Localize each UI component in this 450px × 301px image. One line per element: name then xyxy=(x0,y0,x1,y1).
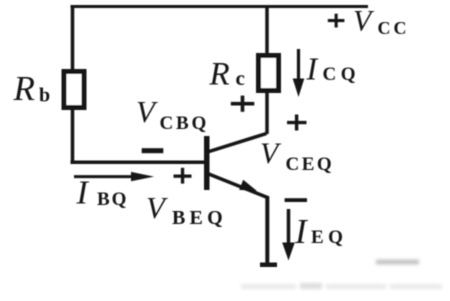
transistor Q1 emitter diagonal xyxy=(208,174,268,198)
svg-text:V: V xyxy=(260,137,282,170)
svg-text:I: I xyxy=(306,51,319,87)
svg-text:b: b xyxy=(39,85,50,107)
wire collector diagonal to transistor xyxy=(208,134,267,153)
watermark band bottom xyxy=(241,283,442,289)
wire emitter vertical xyxy=(265,196,269,263)
plus sign for Vceq xyxy=(287,115,307,131)
resistor Rb xyxy=(64,72,84,108)
svg-text:BEQ: BEQ xyxy=(172,207,227,229)
svg-text:CBQ: CBQ xyxy=(160,113,210,134)
arrow Icq xyxy=(297,49,300,80)
wire collector vertical (top rail to Rc) xyxy=(265,5,269,54)
svg-text:R: R xyxy=(13,69,35,108)
watermark smudge right xyxy=(376,260,419,265)
svg-text:I: I xyxy=(76,175,90,212)
svg-text:R: R xyxy=(209,57,230,93)
minus sign above base wire xyxy=(142,148,164,153)
wire base horizontal xyxy=(71,161,205,165)
wire top rail xyxy=(71,5,369,8)
wire Rb bottom to base node xyxy=(71,109,75,164)
svg-text:CEQ: CEQ xyxy=(286,154,335,175)
svg-text:V: V xyxy=(136,94,158,129)
transistor Q1 base bar xyxy=(204,136,210,190)
svg-text:c: c xyxy=(236,66,245,90)
minus sign at emitter xyxy=(285,198,307,202)
svg-text:V: V xyxy=(353,5,375,38)
label +Vcc plus sign xyxy=(328,14,345,28)
svg-text:EQ: EQ xyxy=(311,227,347,248)
wire Rc bottom to collector bend xyxy=(265,92,269,134)
resistor Rc xyxy=(259,56,279,91)
arrow Ieq xyxy=(287,209,291,244)
svg-text:CQ: CQ xyxy=(323,64,361,85)
wire left vertical (Vcc rail to Rb) xyxy=(71,5,75,70)
arrow Ibq xyxy=(74,175,134,178)
plus sign below Rc xyxy=(231,96,255,112)
svg-text:BQ: BQ xyxy=(97,189,128,210)
plus sign below base wire xyxy=(174,168,192,184)
svg-text:I: I xyxy=(294,212,309,251)
svg-text:V: V xyxy=(146,190,168,225)
ground terminal bar xyxy=(260,263,277,268)
transistor Q1 emitter arrowhead xyxy=(239,180,257,191)
svg-text:CC: CC xyxy=(378,18,410,38)
